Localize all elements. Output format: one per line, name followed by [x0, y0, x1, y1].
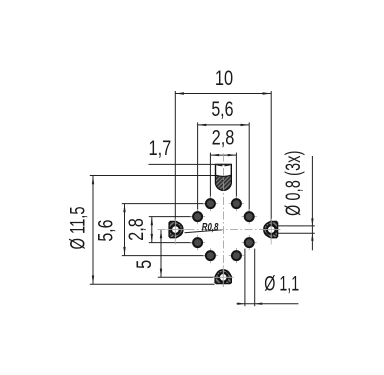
arrow dim 10 right — [263, 92, 272, 94]
extension line top of 2,8 left — [149, 216, 193, 218]
tick cross pad 2 — [229, 196, 244, 211]
dimension line 10 — [175, 93, 271, 95]
dimension line dia 1,1 — [237, 303, 299, 305]
arrow dim 1,7 left — [216, 164, 222, 166]
svg-text:Ø 1,1: Ø 1,1 — [264, 272, 299, 295]
mounting pad right hole — [267, 225, 276, 234]
extension line top of dia 0,8 — [275, 225, 314, 227]
dimension line dia 0,8 — [311, 156, 313, 250]
arrow dim 5 top — [160, 230, 162, 239]
centerline vertical — [222, 154, 224, 288]
arrow dia 1,1 right — [255, 303, 263, 305]
svg-text:Ø 11,5: Ø 11,5 — [66, 206, 89, 249]
arrow dia 11,5 bottom — [92, 276, 94, 285]
svg-text:10: 10 — [215, 66, 233, 89]
arrow dia 1,1 left — [237, 303, 245, 305]
arrow dim 5,6 top left — [198, 124, 207, 126]
tick cross pad 6 — [242, 235, 257, 250]
dimension line 2,8 left — [151, 217, 153, 243]
arrow dim 10 left — [175, 92, 184, 94]
svg-text:5: 5 — [132, 260, 155, 269]
dimension line 1,7 over pad — [149, 163, 232, 165]
arrow dim 2,8 top left — [210, 154, 219, 156]
centerline horizontal — [158, 229, 281, 231]
arrow dia 0,8 lower — [311, 233, 313, 241]
contact pad 8 — [232, 251, 241, 260]
contact pad 4 — [245, 212, 254, 221]
contact pad 2 — [232, 199, 241, 208]
tick cross pad 4 — [242, 209, 257, 224]
tick cross pad 1 — [203, 196, 218, 211]
dimension line dia 11,5 — [92, 176, 94, 285]
extension line left of dim 10 — [174, 91, 176, 221]
mounting pad left hole — [171, 225, 180, 234]
keyway pad hatched lower part — [216, 175, 232, 190]
svg-text:2,8: 2,8 — [212, 126, 235, 149]
arrow dia 0,8 upper — [311, 218, 313, 226]
tick mounting pad right — [263, 219, 281, 245]
svg-text:Ø 0,8 (3x): Ø 0,8 (3x) — [281, 150, 304, 215]
extension line bottom of 5,6 left — [122, 255, 206, 257]
mounting pad right body — [264, 222, 278, 238]
extension line bottom of dia 0,8 — [275, 232, 314, 234]
svg-text:5,6: 5,6 — [211, 97, 233, 121]
extension line right of dim 2,8 top — [235, 153, 237, 199]
arrow dim 1,7 right — [225, 164, 231, 166]
extension line right of dim 5,6 top — [248, 122, 250, 211]
mounting pad left body — [169, 222, 183, 238]
arrow 2,8 left bottom — [151, 234, 153, 243]
dimension line 2,8 top — [210, 154, 236, 156]
dimension line 5 left — [160, 230, 162, 278]
arrow 5,6 left bottom — [123, 247, 125, 256]
contact pad 5 — [193, 238, 202, 247]
mounting pad bottom body — [215, 270, 231, 284]
svg-text:1,7: 1,7 — [149, 136, 172, 159]
mounting pad bottom hole — [219, 273, 228, 282]
extension line left of dia 1,1 — [244, 249, 246, 307]
contact pad 1 — [206, 199, 215, 208]
extension line bottom of dim 5 — [158, 276, 215, 278]
extension line right of dim 10 — [270, 91, 272, 221]
arrow dim 5 bottom — [160, 269, 162, 278]
leader line R0,8 — [185, 230, 223, 233]
extension line top of 5,6 left — [122, 203, 206, 205]
svg-text:5,6: 5,6 — [93, 220, 117, 242]
tick cross pad 8 — [229, 248, 244, 263]
tick cross pad 5 — [190, 235, 205, 250]
arrow dim 5,6 top right — [241, 124, 250, 126]
extension line top of dia 11,5 — [90, 175, 216, 177]
contact pad 7 — [206, 251, 215, 260]
contact pad 6 — [245, 238, 254, 247]
arrow 2,8 left top — [151, 217, 153, 226]
contact pad 3 — [193, 212, 202, 221]
extension line left of dim 5,6 top — [197, 122, 199, 211]
extension line right of dia 1,1 — [254, 249, 256, 307]
tick mounting pad left — [167, 219, 188, 245]
keyway pad D-shape body — [216, 164, 232, 190]
arrow dia 11,5 top — [92, 176, 94, 185]
extension line bottom of dia 11,5 — [90, 283, 215, 285]
arrow 5,6 left top — [123, 204, 125, 213]
extension line bottom of 2,8 left — [149, 242, 193, 244]
extension line left of dim 2,8 top — [209, 153, 211, 199]
tick mounting pad bottom — [213, 267, 234, 287]
svg-text:R0,8: R0,8 — [202, 221, 219, 234]
tick cross pad 7 — [203, 248, 218, 263]
dimension line 5,6 left — [124, 204, 126, 256]
dimension line 5,6 top — [198, 124, 250, 126]
arrow dim 2,8 top right — [228, 154, 237, 156]
tick cross pad 3 — [190, 209, 205, 224]
svg-text:2,8: 2,8 — [124, 218, 147, 241]
